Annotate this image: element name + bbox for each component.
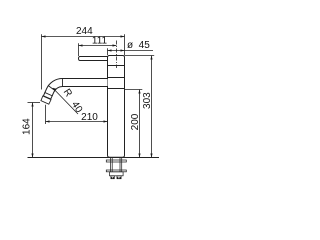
hose nipple right bbox=[117, 176, 121, 179]
ext line dia45 left bbox=[107, 48, 109, 55]
svg-text:R 40: R 40 bbox=[61, 87, 85, 115]
dim line 111 bbox=[79, 45, 117, 47]
deck line bbox=[28, 157, 160, 159]
svg-text:164: 164 bbox=[22, 118, 33, 135]
arrow R40 bbox=[53, 88, 57, 91]
svg-text:111: 111 bbox=[92, 35, 108, 46]
faucet body U1 bbox=[79, 56, 125, 158]
svg-text:210: 210 bbox=[81, 112, 98, 123]
arrowheads bbox=[31, 35, 152, 157]
ext line 210 left bbox=[45, 105, 47, 124]
lever handle bbox=[79, 57, 108, 61]
centerline body axis bbox=[116, 41, 118, 69]
svg-text:244: 244 bbox=[76, 26, 93, 37]
dim line 244 bbox=[42, 36, 125, 38]
arrow 164 bottom bbox=[31, 154, 33, 158]
dim line 210 bbox=[46, 121, 108, 123]
arrow 244 right bbox=[121, 35, 125, 37]
svg-text:200: 200 bbox=[130, 113, 141, 130]
spout tip band 1 bbox=[48, 85, 55, 90]
mounting nut bar bbox=[106, 170, 126, 172]
arrow 210 left bbox=[46, 120, 50, 122]
arrow dia45 left bbox=[108, 49, 112, 51]
spout end cap bbox=[41, 96, 51, 104]
arrow dia45 right bbox=[121, 49, 125, 51]
washer flange bar bbox=[106, 160, 126, 162]
ext line 200 top bbox=[125, 89, 143, 91]
ext line right body bbox=[124, 34, 126, 55]
spout outer bbox=[47, 83, 108, 98]
arrow 164 top bbox=[31, 103, 33, 107]
ext line 164 top bbox=[28, 102, 41, 104]
dim line 303 bbox=[151, 56, 153, 158]
arrow 303 bottom bbox=[150, 154, 152, 158]
arrow 303 top bbox=[150, 56, 152, 60]
ext line 244 left bbox=[41, 34, 43, 89]
leader R40 bbox=[53, 88, 78, 114]
shank tube right walls bbox=[119, 158, 121, 172]
svg-text:303: 303 bbox=[142, 92, 153, 109]
arrow 111 left bbox=[79, 44, 83, 46]
shank tube left walls bbox=[110, 158, 112, 172]
shank lower box bbox=[110, 172, 124, 176]
svg-text:ø 45: ø 45 bbox=[127, 40, 150, 51]
ext line 111 left bbox=[78, 43, 80, 56]
body cap line bbox=[108, 65, 125, 67]
arrow 200 top bbox=[138, 90, 140, 94]
dim line 200 bbox=[139, 90, 141, 158]
arrow 244 left bbox=[42, 35, 46, 37]
dim line 164 bbox=[32, 103, 34, 158]
arrow 210 right bbox=[104, 120, 108, 122]
spout inner white bbox=[47, 83, 107, 97]
ext line 303 top bbox=[125, 55, 155, 57]
spout seam at bend start bbox=[62, 78, 64, 87]
dim line dia45 bbox=[108, 50, 154, 52]
spout tip band 2 bbox=[44, 92, 52, 96]
body ring top line bbox=[108, 77, 125, 79]
arrow 111 right bbox=[113, 44, 117, 46]
hose nipple left bbox=[111, 176, 114, 179]
arrow 200 bottom bbox=[138, 154, 140, 158]
hose end dark squares bbox=[111, 177, 121, 179]
body ring bottom line bbox=[108, 88, 125, 90]
